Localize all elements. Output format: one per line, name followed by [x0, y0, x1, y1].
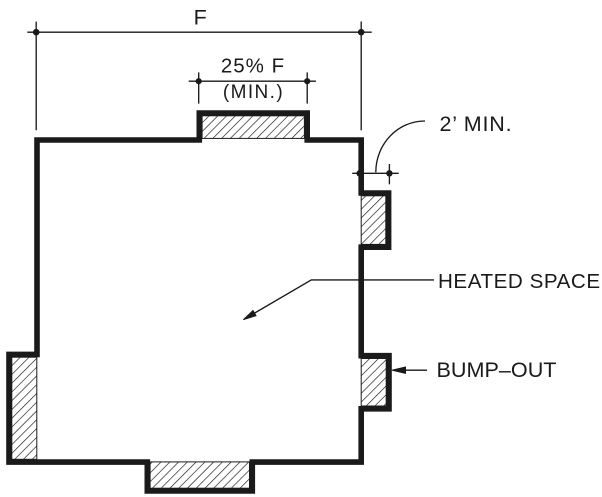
svg-text:2’ MIN.: 2’ MIN. [440, 112, 513, 136]
arrowhead bump-out [392, 367, 406, 373]
heated space outline wall [9, 113, 389, 491]
dimension 2ft left dot [356, 170, 362, 176]
svg-text:BUMP–OUT: BUMP–OUT [437, 357, 557, 382]
dimension F right extension line [360, 22, 362, 131]
dimension 25%F left tick [198, 72, 200, 103]
left bump-out hatch [12, 357, 37, 459]
dimension 2ft line [352, 172, 399, 174]
bottom bump-out hatch [150, 462, 249, 488]
svg-text:(MIN.): (MIN.) [223, 82, 284, 103]
leader heated space [246, 280, 435, 319]
leader bump-out [406, 369, 428, 371]
top bump-out hatch [202, 116, 304, 139]
dimension 25%F right dot [304, 78, 310, 84]
dimension 25%F line [189, 80, 316, 82]
svg-text:25% F: 25% F [221, 55, 285, 78]
svg-text:HEATED SPACE: HEATED SPACE [438, 270, 601, 293]
arrowhead heated space [243, 311, 256, 320]
dimension F right dot [358, 29, 365, 36]
dimension 2ft tick [388, 164, 390, 184]
dimension 25%F left dot [196, 78, 202, 84]
leader arc 2ft [376, 121, 425, 172]
svg-text:F: F [194, 5, 207, 29]
upper-right bump-out hatch [361, 196, 386, 245]
lower-right bump-out hatch [361, 359, 386, 407]
dimension 25%F right tick [306, 72, 308, 103]
dimension F left extension line [35, 22, 37, 131]
dimension 2ft right dot [386, 170, 392, 176]
dimension F line [27, 31, 371, 33]
dimension F left dot [33, 29, 40, 36]
